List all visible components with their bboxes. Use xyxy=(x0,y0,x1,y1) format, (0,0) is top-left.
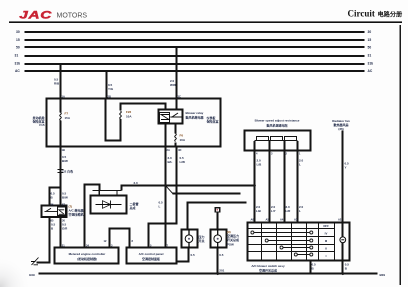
svg-text:0.5: 0.5 xyxy=(219,253,224,257)
connector bar above diode box xyxy=(93,190,122,192)
relay K1 coil box xyxy=(160,113,170,123)
wire V3 drop from bus3 xyxy=(176,48,178,110)
bus line 5 xyxy=(25,63,365,65)
svg-text:G/R: G/R xyxy=(62,227,68,231)
diode symbol xyxy=(96,201,122,209)
divider v1 xyxy=(261,223,263,261)
switch box A xyxy=(182,230,198,248)
wire relay contact to fuse3 xyxy=(175,125,177,134)
svg-text:10A: 10A xyxy=(180,138,186,142)
fuse box notch wire left xyxy=(106,99,121,141)
svg-text:空调开关总成: 空调开关总成 xyxy=(259,268,277,273)
resistor R3 xyxy=(285,137,297,141)
svg-text:30: 30 xyxy=(16,30,20,34)
svg-text:Blower speed adjust resistance: Blower speed adjust resistance xyxy=(255,119,300,123)
box2 panel xyxy=(127,248,177,264)
svg-text:L/Y: L/Y xyxy=(271,209,276,213)
svg-text:PSW: PSW xyxy=(227,242,234,246)
svg-text:OFF: OFF xyxy=(323,224,329,228)
svg-text:31: 31 xyxy=(368,54,372,58)
svg-text:50: 50 xyxy=(368,46,372,50)
svg-text:0.5: 0.5 xyxy=(191,253,196,257)
relay K1 contact xyxy=(170,113,182,117)
switch A dot xyxy=(188,238,190,240)
divider v3 xyxy=(291,223,293,261)
contact row III xyxy=(268,240,310,242)
svg-text:(36): (36) xyxy=(338,127,343,131)
wire V1 cont below box xyxy=(60,148,62,207)
svg-text:MOTORS: MOTORS xyxy=(57,12,88,19)
svg-text:B/W: B/W xyxy=(62,196,68,200)
junction dot rail lamp xyxy=(342,273,344,275)
fuse box outline xyxy=(47,99,221,147)
svg-text:31b: 31b xyxy=(368,62,374,66)
wire V2 drop from bus6 xyxy=(106,71,108,99)
row line 4 xyxy=(248,251,335,253)
switch B circle xyxy=(214,235,222,243)
svg-text:A6: A6 xyxy=(251,218,255,222)
svg-text:L/W: L/W xyxy=(180,160,186,164)
svg-text:31: 31 xyxy=(15,54,19,58)
leg4 xyxy=(297,141,299,223)
svg-text:开关总成: 开关总成 xyxy=(227,237,239,242)
divider v5 xyxy=(318,223,320,261)
junction dot rail B xyxy=(217,273,219,275)
svg-text:31b: 31b xyxy=(15,62,21,66)
wire branch to ground xyxy=(50,188,61,207)
svg-text:开关: 开关 xyxy=(199,238,205,243)
connector square xyxy=(215,208,219,212)
A/C relay coil zig xyxy=(59,210,64,215)
svg-text:201: 201 xyxy=(219,269,224,273)
switch arm diagonal xyxy=(166,186,174,194)
diode triangle xyxy=(103,201,111,209)
switch box B xyxy=(211,230,227,248)
svg-text:L/B: L/B xyxy=(256,209,262,213)
contact circles right xyxy=(310,231,313,234)
svg-text:Metered engine controller: Metered engine controller xyxy=(69,252,107,256)
bottom stub 2 xyxy=(342,261,344,274)
contact row I xyxy=(297,254,310,256)
svg-text:L: L xyxy=(299,209,301,213)
svg-text:A2: A2 xyxy=(338,218,342,222)
svg-text:3C: 3C xyxy=(178,95,181,99)
leg2 xyxy=(269,141,271,223)
svg-text:AC: AC xyxy=(368,69,373,73)
svg-text:AC: AC xyxy=(15,69,20,73)
svg-text:50: 50 xyxy=(16,46,20,50)
svg-text:L: L xyxy=(159,205,161,209)
leg3 xyxy=(284,141,286,223)
inline connector on V1 xyxy=(57,169,63,172)
big switch box xyxy=(248,223,350,261)
diode box xyxy=(91,196,127,214)
wire H1 xyxy=(122,186,255,191)
svg-text:鼓风机调速电阻: 鼓风机调速电阻 xyxy=(266,122,287,127)
wire H0 feed diode box xyxy=(85,185,100,248)
svg-text:A/C control panel: A/C control panel xyxy=(139,252,164,256)
svg-text:Y/G: Y/G xyxy=(108,87,114,91)
svg-text:电路分册: 电路分册 xyxy=(378,10,404,18)
resistor R2 xyxy=(271,137,283,141)
wire V1 drop from bus5 xyxy=(60,64,62,113)
fuse F1 symbol xyxy=(60,113,62,121)
wire H2 xyxy=(173,193,241,195)
svg-text:IV: IV xyxy=(325,231,328,235)
svg-text:4D: 4D xyxy=(178,148,181,152)
bus line 6 xyxy=(25,70,365,72)
divider v6 xyxy=(334,223,336,261)
wire VB xyxy=(149,148,177,248)
ground rail xyxy=(39,273,378,275)
svg-text:F15: F15 xyxy=(39,123,45,127)
switch A wire xyxy=(188,230,190,249)
bottom stub 1 xyxy=(310,261,312,274)
contact row II xyxy=(283,247,310,249)
svg-text:JAC: JAC xyxy=(19,9,52,21)
resistor pack box xyxy=(245,131,311,151)
right page border xyxy=(400,25,402,285)
lamp circle xyxy=(340,237,346,243)
svg-text:T/2 白色: T/2 白色 xyxy=(62,169,73,174)
resistor R1 xyxy=(257,137,269,141)
bus line 1 xyxy=(25,31,365,33)
connector square red mark xyxy=(216,209,218,211)
bridge box1-box2 xyxy=(110,229,130,248)
wire VA xyxy=(165,148,167,248)
svg-text:(发动机控制器): (发动机控制器) xyxy=(77,256,97,261)
bus line 3 xyxy=(25,46,365,48)
switch B dot xyxy=(217,238,219,240)
svg-text:L: L xyxy=(299,163,301,167)
wire AC relay right pin to box1 xyxy=(60,218,62,248)
svg-text:L/B: L/B xyxy=(257,163,263,167)
wire below switch B xyxy=(217,249,219,274)
contact circles left xyxy=(251,231,254,234)
svg-text:Circuit: Circuit xyxy=(348,9,375,19)
box1 ecm xyxy=(55,248,119,264)
radiator fan wire xyxy=(342,131,344,237)
divider v2 xyxy=(276,223,278,261)
svg-text:1A: 1A xyxy=(62,95,65,99)
svg-text:鼓风机继电器: 鼓风机继电器 xyxy=(186,114,205,119)
svg-text:G09: G09 xyxy=(29,273,35,277)
svg-text:空调压缩机: 空调压缩机 xyxy=(69,212,84,217)
A/C relay contact xyxy=(45,208,58,211)
svg-text:L/R: L/R xyxy=(286,209,292,213)
switch A circle xyxy=(185,235,193,243)
svg-text:B/L: B/L xyxy=(168,160,173,164)
svg-text:A5: A5 xyxy=(266,218,270,222)
svg-text:II: II xyxy=(325,246,327,250)
junction dot H1 VA xyxy=(164,184,166,186)
svg-text:B09: B09 xyxy=(380,273,386,277)
divider v4 xyxy=(306,223,308,261)
svg-text:15: 15 xyxy=(368,38,372,42)
svg-text:A3: A3 xyxy=(294,218,298,222)
svg-text:1B: 1B xyxy=(62,148,65,152)
svg-text:15: 15 xyxy=(16,38,20,42)
wire below switch A xyxy=(177,249,189,262)
diode box pins xyxy=(99,191,117,196)
wire V1 below fuse1 xyxy=(60,121,62,148)
wire AC relay left pin down xyxy=(37,218,50,263)
switch B wire xyxy=(217,230,219,249)
ground symbol G xyxy=(31,258,39,266)
bus line 2 xyxy=(25,39,365,41)
leg1 xyxy=(254,141,256,223)
svg-text:总成: 总成 xyxy=(130,205,136,210)
bus line 4 xyxy=(25,55,365,57)
svg-text:F6: F6 xyxy=(180,134,184,138)
relay K1 coil zigzag xyxy=(161,115,169,120)
svg-text:A4: A4 xyxy=(280,218,284,222)
A/C relay coil box xyxy=(58,207,66,216)
svg-text:III: III xyxy=(325,239,328,243)
svg-text:W/R: W/R xyxy=(170,83,177,87)
svg-text:Y: Y xyxy=(345,166,347,170)
fuse F2 symbol xyxy=(120,111,122,119)
wire H3 xyxy=(188,203,247,230)
header rule xyxy=(9,21,402,23)
svg-text:10A: 10A xyxy=(126,114,132,118)
A/C relay box xyxy=(42,206,67,218)
wire fuse2 top to relay coil xyxy=(121,104,166,111)
row line 3 xyxy=(248,244,335,246)
svg-text:15A: 15A xyxy=(65,116,71,120)
svg-text:2B: 2B xyxy=(108,95,111,99)
svg-text:空调控制面板: 空调控制面板 xyxy=(142,256,161,261)
svg-text:A/C blower switch assy: A/C blower switch assy xyxy=(251,264,285,268)
wire to switch B xyxy=(217,212,219,230)
lamp filament tick xyxy=(341,239,344,241)
relay K1 blower relay box xyxy=(159,110,183,124)
junction dot H1 leg1 xyxy=(254,184,256,186)
row line 2 xyxy=(248,236,335,238)
svg-text:R/B: R/B xyxy=(54,82,60,86)
wire relay coil bottom pin xyxy=(165,125,167,148)
lamp wire in box xyxy=(342,243,344,261)
resistor link line xyxy=(255,140,298,142)
svg-text:30: 30 xyxy=(368,30,372,34)
row line 1 xyxy=(248,228,335,230)
contact row IV xyxy=(254,232,310,234)
svg-text:2.0: 2.0 xyxy=(134,181,139,185)
fuse F3 symbol xyxy=(175,134,177,142)
svg-text:B/W: B/W xyxy=(62,159,68,163)
svg-text:2A: 2A xyxy=(167,148,170,152)
svg-text:保险丝盒: 保险丝盒 xyxy=(206,119,220,124)
wire fuse3 to box bottom xyxy=(175,143,177,148)
